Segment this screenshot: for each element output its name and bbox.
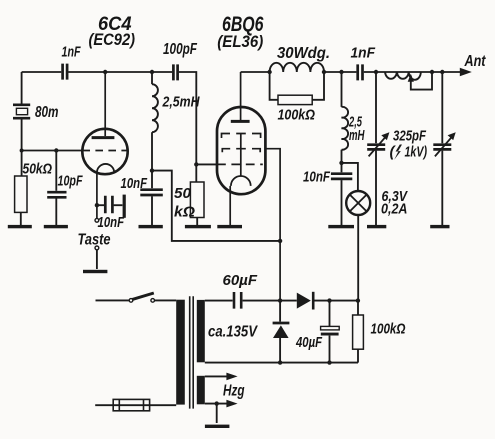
svg-text:Ant: Ant (464, 53, 486, 70)
svg-text:100kΩ: 100kΩ (371, 320, 406, 337)
svg-text:(EL36): (EL36) (217, 32, 263, 51)
svg-text:50kΩ: 50kΩ (23, 161, 53, 177)
svg-text:100pF: 100pF (163, 41, 197, 58)
svg-text:10nF: 10nF (121, 176, 148, 192)
svg-text:80m: 80m (35, 104, 59, 121)
svg-text:1nF: 1nF (62, 44, 82, 61)
svg-text:10nF: 10nF (303, 169, 331, 185)
svg-text:2,5mH: 2,5mH (162, 94, 201, 111)
svg-text:100kΩ: 100kΩ (278, 107, 316, 124)
svg-text:1kV): 1kV) (405, 143, 428, 160)
svg-text:mH: mH (349, 128, 365, 144)
svg-text:10pF: 10pF (58, 173, 84, 189)
svg-text:1nF: 1nF (351, 45, 376, 62)
svg-text:Hzg: Hzg (223, 382, 245, 399)
svg-text:Taste: Taste (78, 231, 111, 248)
svg-text:10nF: 10nF (98, 215, 125, 231)
svg-text:40µF: 40µF (295, 334, 322, 351)
svg-text:0,2A: 0,2A (381, 202, 408, 218)
svg-text:60µF: 60µF (223, 272, 258, 289)
svg-text:50: 50 (174, 185, 192, 202)
svg-text:ca.135V: ca.135V (208, 324, 258, 341)
svg-text:(EC92): (EC92) (89, 31, 136, 49)
svg-text:325pF: 325pF (393, 128, 427, 145)
svg-text:kΩ: kΩ (174, 204, 195, 221)
svg-text:30Wdg.: 30Wdg. (277, 45, 330, 62)
